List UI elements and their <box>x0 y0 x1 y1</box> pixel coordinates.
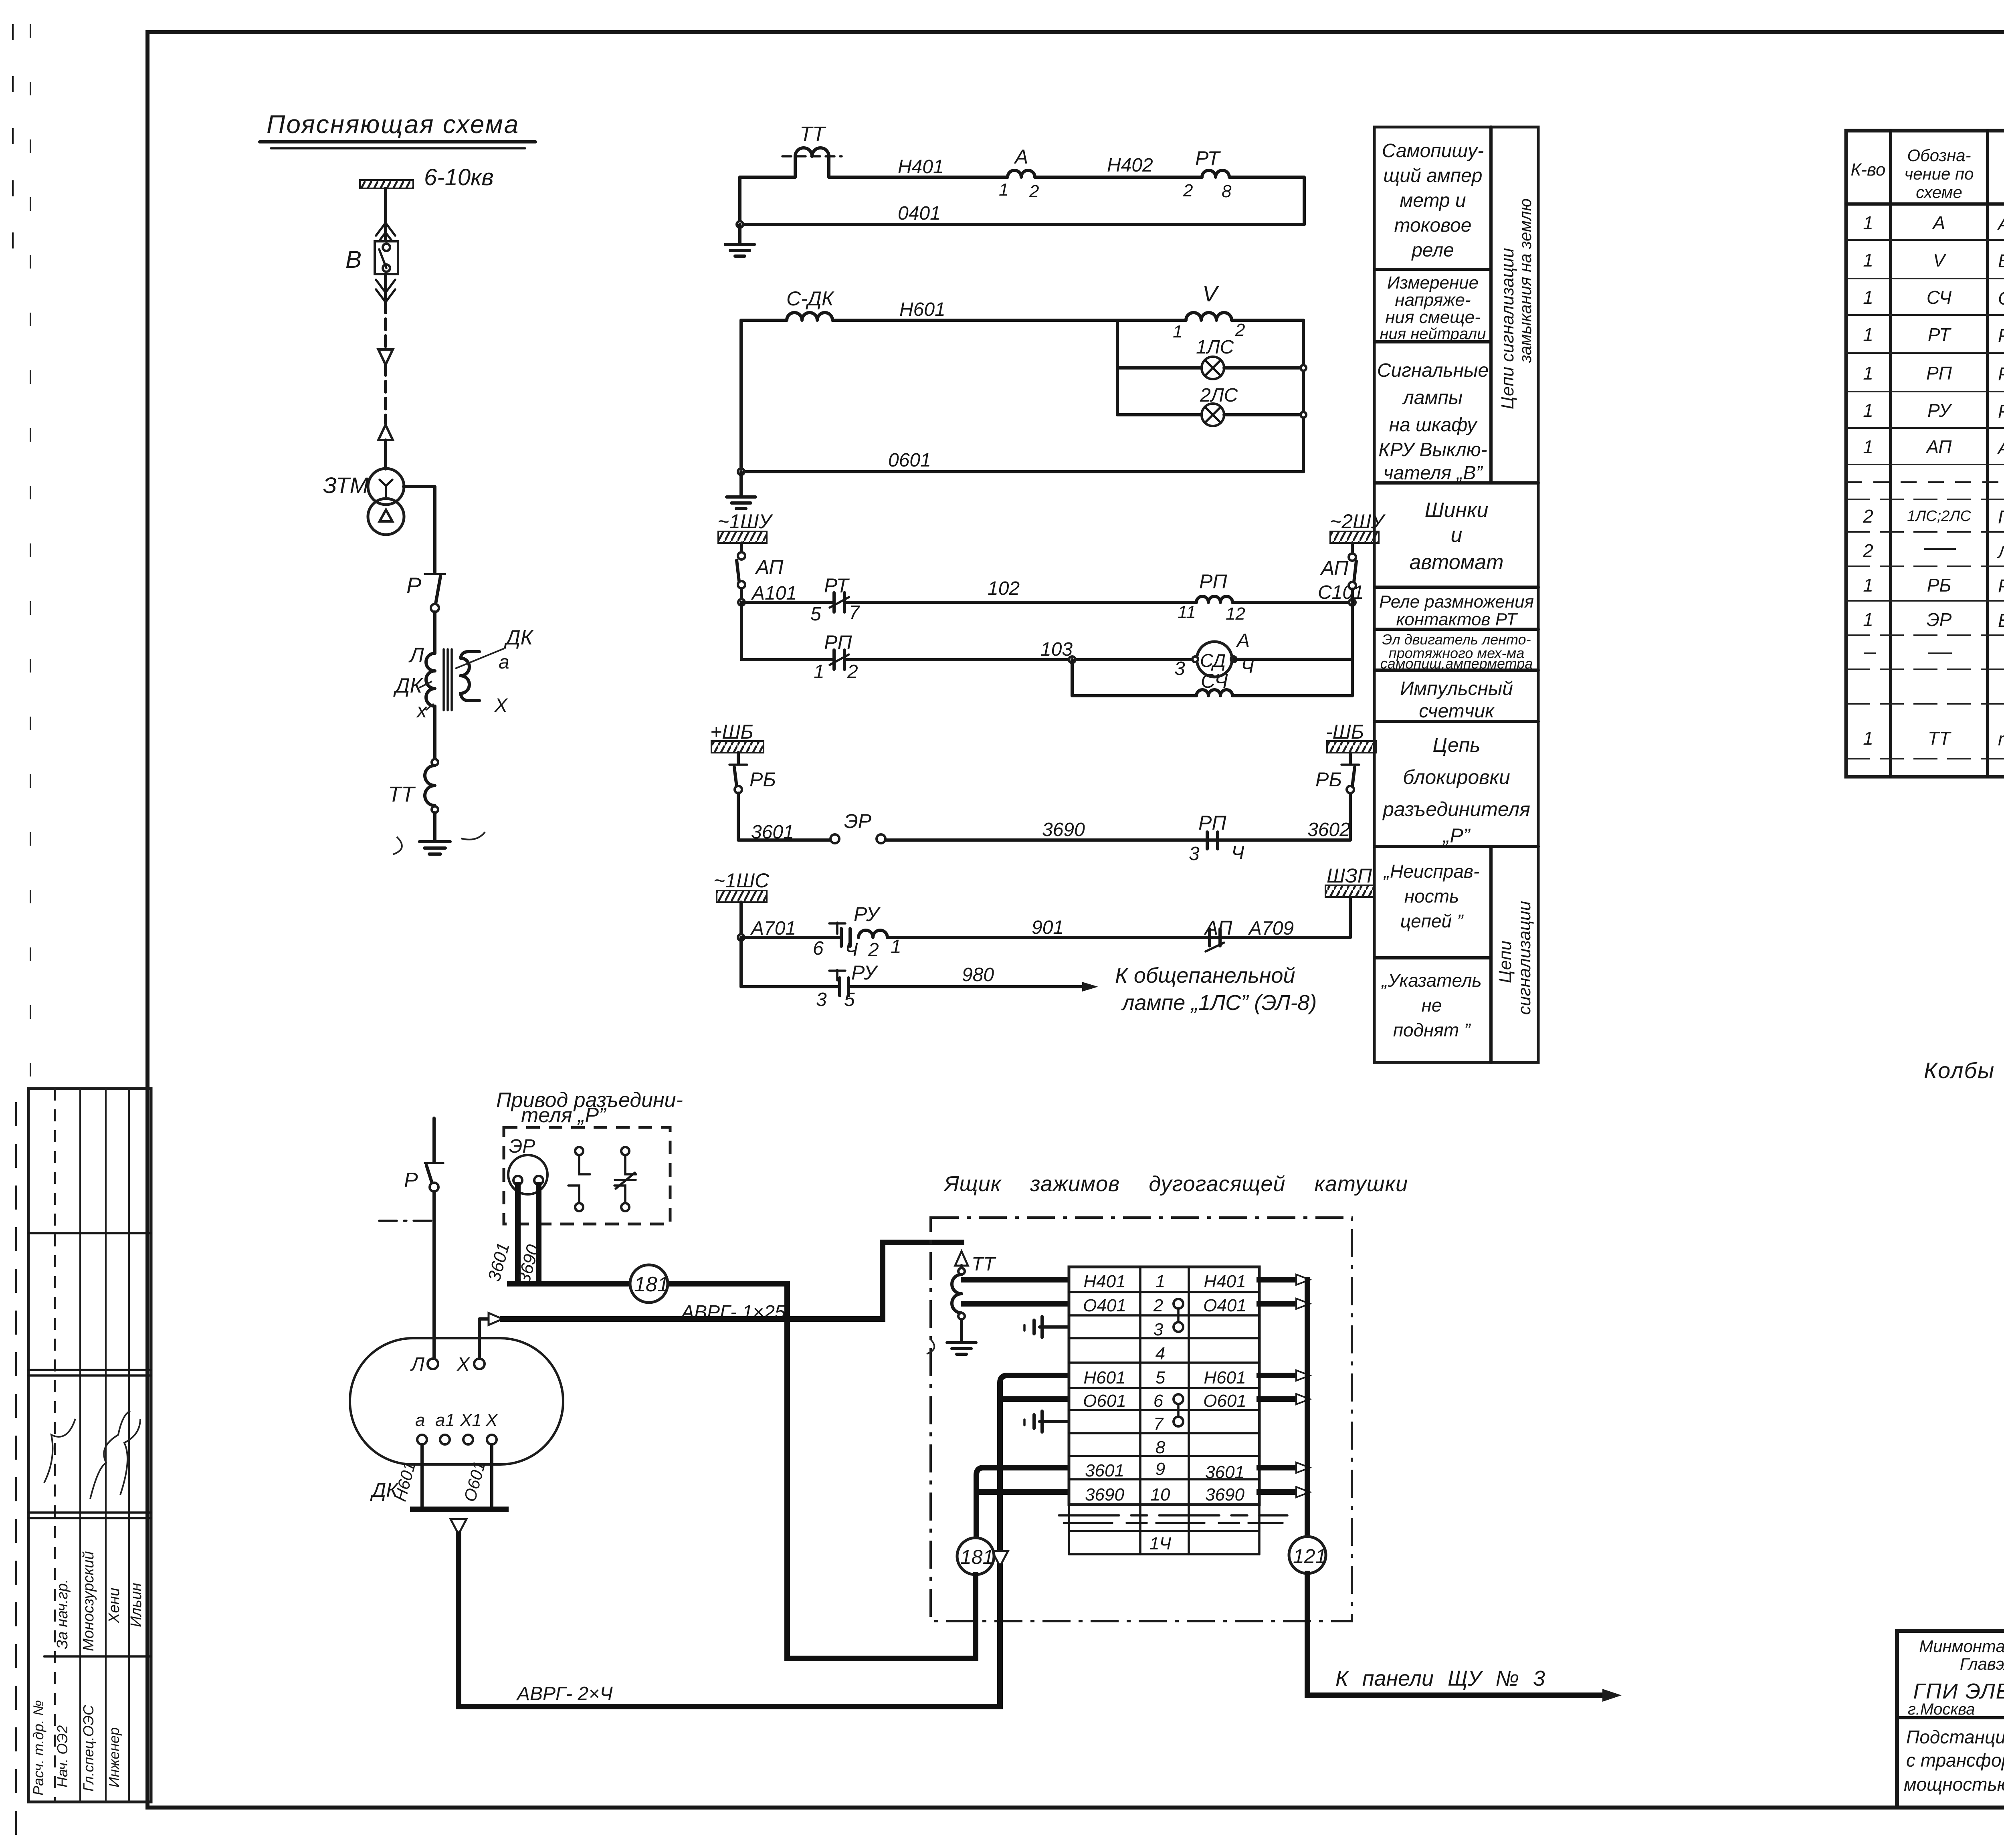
svg-text:лампы: лампы <box>1402 387 1463 408</box>
row 7: automatic breaker <box>1863 434 2004 465</box>
wire (down from 5/6 to cable 2х4) <box>997 1399 1003 1548</box>
svg-text:Самопишу-: Самопишу- <box>1382 140 1484 162</box>
svg-text:Х: Х <box>457 1354 471 1375</box>
node С101 <box>1232 582 1364 606</box>
svg-text:2: 2 <box>1235 320 1245 340</box>
svg-text:2: 2 <box>868 939 879 961</box>
svg-text:метр и: метр и <box>1400 190 1466 211</box>
wire Н401 <box>740 156 1008 178</box>
contact РУ (pins 3-5) branch <box>741 937 879 1010</box>
svg-text:СЧ: СЧ <box>1927 287 1952 308</box>
svg-text:х: х <box>416 699 428 722</box>
svg-text:С-ДК: С-ДК <box>786 287 834 310</box>
branch node <box>1116 320 1119 415</box>
wire 3690 <box>885 819 1350 840</box>
svg-text:АВРГ- 2×Ч: АВРГ- 2×Ч <box>516 1683 613 1705</box>
label: цепь блокировки разъединителя Р <box>1382 734 1530 847</box>
current relay coil РТ (pins 2-8) <box>1183 147 1232 201</box>
svg-text:ГПИ ЭЛЕКТРОПРОЕКТ: ГПИ ЭЛЕКТРОПРОЕКТ <box>1913 1679 2004 1703</box>
svg-text:Н401: Н401 <box>1204 1272 1246 1291</box>
busbar ~1ШС <box>713 869 770 902</box>
label: шинки и автомат <box>1409 499 1503 574</box>
svg-text:г.Москва: г.Москва <box>1908 1701 1975 1718</box>
svg-text:Подстанции 110/6-10кВ: Подстанции 110/6-10кВ <box>1906 1727 2004 1747</box>
svg-text:СД: СД <box>1200 650 1226 671</box>
svg-text:2: 2 <box>1863 540 1873 561</box>
svg-text:счетчик: счетчик <box>1419 701 1495 722</box>
svg-text:А: А <box>1014 145 1028 168</box>
svg-text:Измерение: Измерение <box>1387 273 1479 293</box>
grounding tap at terminal 7 <box>1024 1411 1069 1432</box>
label: эл двигатель лентопротяжного механизма <box>1380 631 1533 672</box>
svg-text:Амперметр регистрирующий: Амперметр регистрирующий <box>1997 213 2004 234</box>
svg-text:Реле указательное: Реле указательное <box>1998 401 2004 422</box>
terminal box outline (dash-dot) <box>931 1172 1408 1621</box>
ground <box>393 832 485 854</box>
svg-text:сигнализации: сигнализации <box>1515 901 1534 1015</box>
wire <box>739 320 743 472</box>
svg-text:самопиш.амперметра: самопиш.амперметра <box>1380 655 1533 672</box>
svg-text:11: 11 <box>1178 602 1196 622</box>
wire 3601 (from key) <box>484 1185 518 1284</box>
svg-text:АП: АП <box>755 556 784 578</box>
wire to ground <box>738 224 741 244</box>
svg-text:ДК: ДК <box>393 674 424 697</box>
svg-text:РП: РП <box>1199 570 1227 593</box>
svg-text:КРУ Выклю-: КРУ Выклю- <box>1378 439 1487 460</box>
svg-text:О601: О601 <box>460 1459 489 1504</box>
svg-text:А: А <box>1932 212 1945 233</box>
svg-text:За нач.гр.: За нач.гр. <box>54 1579 71 1649</box>
svg-text:О401: О401 <box>1203 1296 1246 1315</box>
svg-text:Л: Л <box>408 644 424 667</box>
interlock key ЭР <box>830 810 885 843</box>
wire to terminal 9 <box>976 1468 1069 1537</box>
svg-text:8: 8 <box>1156 1438 1166 1457</box>
label привод разъединителя Р <box>496 1089 683 1127</box>
node <box>738 469 744 475</box>
svg-text:Поясняющая схема: Поясняющая схема <box>267 110 519 139</box>
junction node <box>1069 656 1075 696</box>
svg-text:+ШБ: +ШБ <box>710 721 754 743</box>
svg-text:теля „Р”: теля „Р” <box>521 1104 607 1127</box>
svg-text:4: 4 <box>1156 1344 1165 1363</box>
svg-text:1Ч: 1Ч <box>1149 1534 1171 1553</box>
svg-text:и: и <box>1451 523 1463 547</box>
rotated label: цепи сигнализации замыкания на землю <box>1498 198 1535 409</box>
dashes in empty list cells <box>1864 516 2004 653</box>
svg-text:1: 1 <box>1863 363 1873 384</box>
table header texts <box>1850 143 2004 202</box>
svg-text:Импульсный: Импульсный <box>1400 678 1513 699</box>
wire <box>384 188 387 241</box>
svg-text:а: а <box>415 1410 425 1430</box>
svg-text:трансформатор тока: трансформатор тока <box>1998 729 2004 749</box>
current transformer ТТ (montage) <box>952 1251 996 1342</box>
svg-text:Х: Х <box>494 695 508 716</box>
svg-text:2ЛС: 2ЛС <box>1200 385 1238 406</box>
title stamp table (left margin, rotated) <box>28 1089 151 1802</box>
svg-text:1: 1 <box>1156 1272 1165 1291</box>
svg-text:7: 7 <box>1154 1414 1164 1434</box>
svg-text:Цепи сигнализации: Цепи сигнализации <box>1498 248 1517 410</box>
svg-text:Автоматический Выключатель: Автоматический Выключатель <box>1997 437 2004 458</box>
svg-text:ТТ: ТТ <box>972 1254 996 1275</box>
wire (down to bottom run) <box>784 1284 790 1658</box>
svg-text:181: 181 <box>634 1273 669 1296</box>
row: current transformer <box>1863 721 2004 752</box>
svg-text:К-во: К-во <box>1850 160 1885 180</box>
svg-text:О601: О601 <box>1203 1391 1246 1411</box>
signal lamp 1ЛС <box>1117 337 1303 379</box>
svg-text:9: 9 <box>1156 1459 1165 1479</box>
svg-text:с трансформаторами: с трансформаторами <box>1906 1750 2004 1771</box>
wire 3690 (from key) <box>514 1185 543 1286</box>
node (junction) <box>432 759 438 765</box>
svg-text:ЭР: ЭР <box>1927 609 1952 630</box>
cable run to box (with cable mark 181) <box>510 1265 787 1303</box>
svg-text:1: 1 <box>1863 287 1873 308</box>
cable label АВРГ-1х25 <box>680 1302 786 1323</box>
label: сигнальные лампы <box>1377 360 1489 484</box>
label: указатель не поднят <box>1381 970 1481 1040</box>
row: interlock lock <box>1863 609 2004 631</box>
svg-text:ЭР: ЭР <box>844 810 872 832</box>
svg-text:Рубильник двухполюсный: Рубильник двухполюсный <box>1998 576 2004 596</box>
label: измерение напряжения <box>1380 273 1486 343</box>
contact РП (pins 3-4) <box>1189 812 1244 864</box>
terminal Л <box>410 1354 438 1375</box>
node 3601 <box>751 822 794 843</box>
node <box>737 221 743 228</box>
interlock key ЭР (montage) <box>508 1136 547 1194</box>
wire <box>384 440 387 469</box>
svg-text:Реле максимального тока: Реле максимального тока <box>1998 325 2004 346</box>
svg-text:Моносзурский: Моносзурский <box>80 1551 97 1651</box>
svg-text:Сигнальные: Сигнальные <box>1377 360 1489 381</box>
svg-text:Реле размножения: Реле размножения <box>1379 592 1534 612</box>
svg-text:щий ампер: щий ампер <box>1384 165 1483 186</box>
svg-text:ТТ: ТТ <box>1928 728 1951 749</box>
wire <box>1229 177 1304 224</box>
svg-text:Ч: Ч <box>845 939 858 961</box>
label: реле размножения контактов РТ <box>1379 592 1534 629</box>
svg-text:разъединителя: разъединителя <box>1382 798 1530 820</box>
ДК tank (oval) <box>350 1338 563 1501</box>
cable mark 121 <box>1289 1537 1326 1695</box>
svg-text:токовое: токовое <box>1394 215 1472 236</box>
svg-text:автомат: автомат <box>1409 551 1503 574</box>
label: самопишущий амперметр <box>1382 140 1484 261</box>
wire to terminal 6 <box>1000 1396 1069 1402</box>
wire to terminal 2 <box>964 1301 1069 1307</box>
svg-text:О601: О601 <box>1083 1391 1126 1411</box>
svg-text:~2ШУ: ~2ШУ <box>1330 510 1386 533</box>
svg-text:на шкафу: на шкафу <box>1389 414 1478 436</box>
svg-text:3690: 3690 <box>1085 1485 1124 1505</box>
svg-text:3601: 3601 <box>1085 1461 1124 1480</box>
svg-text:Счетчик импульсный: Счетчик импульсный <box>1998 288 2004 309</box>
svg-text:чателя „В”: чателя „В” <box>1384 463 1483 484</box>
wire <box>738 177 741 224</box>
svg-text:Главэлектромонтаж: Главэлектромонтаж <box>1960 1654 2004 1673</box>
wire 980 with arrow <box>848 964 1098 992</box>
svg-text:3690: 3690 <box>1205 1485 1244 1505</box>
output wires to panel (right side of strip) <box>1259 1274 1310 1536</box>
motor СД (pins 3-4) <box>1174 630 1352 679</box>
relay coil РП (pins 11-12) <box>1178 570 1245 624</box>
wire to terminal 1 <box>964 1277 1069 1282</box>
svg-text:12: 12 <box>1226 604 1245 624</box>
svg-text:замыкания на землю: замыкания на землю <box>1516 198 1535 363</box>
svg-text:А709: А709 <box>1248 918 1294 939</box>
svg-text:980: 980 <box>962 964 994 986</box>
svg-text:Н401: Н401 <box>1083 1272 1125 1291</box>
svg-text:РУ: РУ <box>854 903 881 925</box>
grounding tap at terminal 3 <box>1024 1317 1069 1337</box>
svg-text:а1: а1 <box>435 1410 455 1430</box>
svg-text:„Указатель: „Указатель <box>1381 970 1481 991</box>
svg-text:Н401: Н401 <box>898 156 944 178</box>
svg-text:СЧ: СЧ <box>1201 670 1228 692</box>
svg-text:„Неисправ-: „Неисправ- <box>1383 861 1480 882</box>
busbar ШЗП <box>1325 864 1374 937</box>
indicating relay РУ (contact 6-4, coil 2-1) <box>741 903 901 961</box>
svg-text:3: 3 <box>816 989 827 1010</box>
svg-text:Гл.спец.ОЭС: Гл.спец.ОЭС <box>80 1705 97 1791</box>
row 1: ammeter <box>1863 205 2004 241</box>
wire (dashed cable run) <box>384 302 387 349</box>
svg-text:1: 1 <box>1863 436 1873 457</box>
busbar 6-10кВ <box>360 164 494 190</box>
dashed enclosure (drive box) <box>504 1127 670 1224</box>
wire to ground <box>739 472 743 496</box>
wire 0601 (return) <box>741 450 1303 472</box>
arc-suppression coil transformer ДК <box>393 626 534 722</box>
svg-text:а: а <box>499 652 509 673</box>
cable termination triangle (down) <box>378 349 393 365</box>
wire <box>433 813 436 841</box>
svg-text:АП: АП <box>1925 436 1952 457</box>
svg-text:Ящик зажимов дугогасящей: Ящик зажимов дугогасящей катушки <box>943 1172 1408 1196</box>
busbar -ШБ <box>1326 721 1376 753</box>
wire <box>384 365 387 423</box>
svg-text:6: 6 <box>813 938 824 959</box>
svg-text:8: 8 <box>1222 182 1232 201</box>
svg-text:РТ: РТ <box>824 574 850 597</box>
right bus wire <box>1301 320 1306 472</box>
terminal Х <box>457 1354 485 1375</box>
svg-text:Н601: Н601 <box>1204 1368 1246 1388</box>
svg-text:не: не <box>1422 995 1442 1016</box>
svg-text:мощностью от 6,3 до25 МВа: мощностью от 6,3 до25 МВа <box>1904 1774 2004 1795</box>
svg-text:6: 6 <box>1154 1391 1164 1411</box>
busbar ~2ШУ <box>1330 510 1386 543</box>
svg-text:блокировки: блокировки <box>1403 766 1510 788</box>
svg-text:3: 3 <box>1189 843 1200 864</box>
svg-text:5: 5 <box>810 604 821 625</box>
switch АП (left) <box>737 543 784 588</box>
ground (under ТТ) <box>927 1339 976 1354</box>
svg-text:К общепанельной: К общепанельной <box>1115 963 1295 988</box>
wire 102 <box>844 578 1196 602</box>
svg-text:V: V <box>1202 281 1219 306</box>
switch АП (right) <box>1320 543 1356 602</box>
svg-text:Обозна-: Обозна- <box>1907 146 1971 165</box>
current transformer ТТ <box>782 123 842 177</box>
svg-text:2: 2 <box>1183 181 1193 200</box>
svg-text:контактов РТ: контактов РТ <box>1396 610 1518 629</box>
wire to terminal 5 <box>1000 1375 1069 1399</box>
svg-text:~1ШС: ~1ШС <box>713 869 770 892</box>
coil С-ДК <box>786 287 834 320</box>
wire 103 <box>844 639 1197 660</box>
svg-text:Ильин: Ильин <box>128 1583 145 1627</box>
terminal strip table <box>1069 1267 1259 1505</box>
svg-text:Л: Л <box>410 1354 424 1375</box>
svg-text:1: 1 <box>814 661 824 683</box>
disconnector Р (single-line) <box>406 573 445 612</box>
svg-text:ЗТМ: ЗТМ <box>323 473 369 498</box>
svg-text:РУ: РУ <box>851 961 879 984</box>
auxiliary contact 2 <box>614 1147 636 1211</box>
svg-text:1: 1 <box>1863 728 1873 749</box>
signal lamp 2ЛС <box>1117 385 1303 426</box>
svg-text:Цепь: Цепь <box>1432 734 1480 756</box>
svg-text:1: 1 <box>1863 212 1873 233</box>
svg-text:Хени: Хени <box>106 1587 123 1624</box>
svg-text:АП: АП <box>1320 557 1349 579</box>
cable run АВРГ-2х4 <box>459 1683 1000 1707</box>
svg-text:Инженер: Инженер <box>106 1727 122 1787</box>
svg-text:Х1: Х1 <box>460 1410 482 1430</box>
svg-text:К панели ЩУ № 3: К панели ЩУ № 3 <box>1335 1666 1545 1690</box>
cable termination triangle <box>992 1551 1008 1707</box>
page edge dash-dot mark (left margin) <box>13 24 30 1844</box>
row: two-pole switch <box>1863 575 2004 596</box>
annotation: к общепанельной лампе <box>1115 963 1317 1015</box>
svg-text:-ШБ: -ШБ <box>1326 721 1364 743</box>
wire to terminal 10 <box>977 1489 1069 1495</box>
row 2: voltmeter <box>1863 250 2004 271</box>
svg-text:ность: ность <box>1404 886 1459 907</box>
svg-text:ния смеще-: ния смеще- <box>1385 307 1481 327</box>
svg-text:1: 1 <box>1863 400 1873 421</box>
svg-text:3601: 3601 <box>1205 1462 1244 1482</box>
row 5: intermediate relay <box>1863 363 2004 384</box>
panel boundary dash-dot <box>379 1220 437 1222</box>
row 3: pulse counter <box>1863 287 2004 309</box>
svg-text:3: 3 <box>1174 658 1185 679</box>
cable bus under tank <box>413 1509 506 1707</box>
svg-text:РП: РП <box>1198 812 1226 834</box>
svg-text:Патрон стенной прямой: Патрон стенной прямой <box>1998 507 2004 527</box>
svg-text:Н601: Н601 <box>899 299 945 320</box>
svg-text:А: А <box>1236 630 1250 651</box>
contact АП <box>1204 917 1232 951</box>
svg-text:Х: Х <box>485 1410 498 1430</box>
label: импульсный счетчик <box>1400 678 1513 722</box>
cable termination triangle (up) <box>378 425 393 440</box>
cable mark 181 (bottom) <box>787 1538 994 1658</box>
wire Н601 (from terminal а) <box>390 1444 422 1508</box>
svg-text:РУ: РУ <box>1927 400 1953 421</box>
ground <box>725 244 754 256</box>
svg-text:Ч: Ч <box>1231 842 1244 864</box>
svg-text:В: В <box>345 246 362 273</box>
svg-text:Р: Р <box>406 573 421 598</box>
svg-text:РБ: РБ <box>1315 768 1342 791</box>
svg-text:РП: РП <box>824 631 852 654</box>
svg-text:РТ: РТ <box>1928 324 1951 345</box>
lower terminals а а1 Х1 Х <box>415 1410 498 1444</box>
section title <box>260 110 535 148</box>
wire <box>433 612 436 653</box>
voltmeter coil V (pins 1-2) <box>1173 281 1245 341</box>
svg-text:7: 7 <box>849 602 861 623</box>
wire <box>1232 319 1303 322</box>
svg-text:5: 5 <box>844 989 855 1010</box>
node 3602 <box>1307 819 1350 840</box>
svg-text:О401: О401 <box>1083 1296 1126 1315</box>
svg-text:Нач. ОЭ2: Нач. ОЭ2 <box>54 1725 71 1787</box>
svg-text:1: 1 <box>1863 609 1873 630</box>
svg-text:1: 1 <box>999 180 1008 200</box>
svg-text:1: 1 <box>1863 324 1873 345</box>
svg-text:Блокировочный замок: Блокировочный замок <box>1998 610 2004 631</box>
svg-text:2: 2 <box>1153 1296 1163 1315</box>
svg-text:ТТ: ТТ <box>388 782 416 806</box>
knife switch РБ (right) <box>1315 753 1359 840</box>
svg-text:РП: РП <box>1926 363 1952 384</box>
svg-text:Расч. т.др. №: Расч. т.др. № <box>30 1700 46 1795</box>
svg-text:Минмонтажспецстрой ОССР: Минмонтажспецстрой ОССР <box>1919 1637 2004 1656</box>
node А709 <box>1248 918 1294 939</box>
knife switch РБ (left) <box>729 753 776 840</box>
svg-text:1: 1 <box>1863 575 1873 596</box>
busbar ~1ШУ <box>717 510 774 543</box>
svg-text:реле: реле <box>1411 240 1454 261</box>
svg-text:ШЗП: ШЗП <box>1327 864 1372 887</box>
svg-text:РБ: РБ <box>1927 575 1951 596</box>
svg-text:0601: 0601 <box>888 450 931 471</box>
svg-text:5: 5 <box>1156 1368 1166 1388</box>
svg-text:3690: 3690 <box>1042 819 1085 840</box>
svg-text:901: 901 <box>1032 917 1064 938</box>
svg-text:Вольтметр: Вольтметр <box>1998 250 2004 271</box>
row 6: indicating relay <box>1863 400 2004 422</box>
svg-text:1: 1 <box>891 936 901 957</box>
svg-text:0401: 0401 <box>898 203 941 224</box>
svg-text:Реле промежуточное: Реле промежуточное <box>1998 364 2004 384</box>
svg-text:3601: 3601 <box>484 1240 513 1283</box>
svg-text:лампе „1ЛС” (ЭЛ-8): лампе „1ЛС” (ЭЛ-8) <box>1121 991 1317 1015</box>
row: lamp <box>1863 535 2004 568</box>
row 4: max current relay <box>1863 324 2004 348</box>
wire <box>433 706 436 759</box>
ammeter coil А (pins 1-2) <box>999 145 1039 201</box>
wire О601 (from terminal Х) <box>460 1444 492 1508</box>
ground <box>727 497 756 509</box>
row: lamp holder <box>1863 505 2004 527</box>
svg-text:чение по: чение по <box>1904 164 1974 183</box>
jumper terminals 6-7 <box>1174 1394 1183 1426</box>
svg-text:Колбы ламп окрасить в крас: Колбы ламп окрасить в красный цвет. <box>1924 1058 2004 1083</box>
svg-text:10: 10 <box>1151 1485 1170 1505</box>
svg-text:ТТ: ТТ <box>800 123 826 146</box>
svg-text:1ЛС: 1ЛС <box>1196 337 1234 358</box>
wire <box>739 902 743 937</box>
